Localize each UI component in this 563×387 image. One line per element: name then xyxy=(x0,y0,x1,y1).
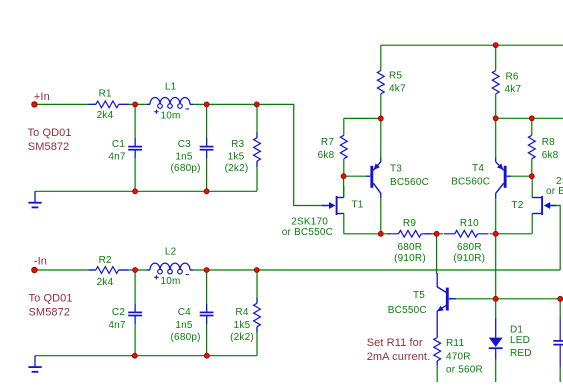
svg-text:2mA current.: 2mA current. xyxy=(367,351,431,363)
svg-text:L1: L1 xyxy=(165,82,177,93)
svg-text:R3: R3 xyxy=(231,139,244,150)
svg-text:4k7: 4k7 xyxy=(389,84,406,95)
svg-text:SM5872: SM5872 xyxy=(28,141,70,153)
svg-text:6k8: 6k8 xyxy=(542,150,559,161)
svg-text:To QD01: To QD01 xyxy=(29,293,73,305)
svg-text:BC550C: BC550C xyxy=(388,305,427,316)
svg-text:2k4: 2k4 xyxy=(97,277,114,288)
svg-text:R6: R6 xyxy=(506,71,519,82)
svg-text:RED: RED xyxy=(510,348,532,359)
svg-text:10m: 10m xyxy=(160,110,180,121)
svg-text:T3: T3 xyxy=(390,163,402,174)
svg-text:(2k2): (2k2) xyxy=(230,332,254,343)
svg-text:BC560C: BC560C xyxy=(390,177,429,188)
svg-text:or BC550C: or BC550C xyxy=(282,227,333,238)
svg-text:4k7: 4k7 xyxy=(505,84,522,95)
svg-text:or BC550C: or BC550C xyxy=(546,186,563,197)
svg-text:4n7: 4n7 xyxy=(108,152,126,163)
svg-text:SM5872: SM5872 xyxy=(29,307,71,319)
svg-text:R7: R7 xyxy=(321,137,334,148)
svg-text:1n5: 1n5 xyxy=(175,320,193,331)
svg-text:C3: C3 xyxy=(178,139,191,150)
svg-text:(680p): (680p) xyxy=(171,163,201,174)
svg-text:Set R11 for: Set R11 for xyxy=(367,337,423,349)
svg-text:R5: R5 xyxy=(389,71,402,82)
svg-text:T5: T5 xyxy=(413,290,425,301)
svg-text:C2: C2 xyxy=(112,307,125,318)
svg-text:R1: R1 xyxy=(99,88,112,99)
svg-text:C1: C1 xyxy=(112,139,125,150)
svg-text:2k4: 2k4 xyxy=(97,110,114,121)
svg-text:R2: R2 xyxy=(99,255,112,266)
svg-text:(910R): (910R) xyxy=(453,253,485,264)
svg-text:1k5: 1k5 xyxy=(228,152,245,163)
svg-text:4n7: 4n7 xyxy=(108,320,126,331)
svg-text:680R: 680R xyxy=(397,242,422,253)
svg-text:R10: R10 xyxy=(460,218,479,229)
svg-text:6k8: 6k8 xyxy=(318,150,335,161)
svg-text:LED: LED xyxy=(510,335,530,346)
svg-text:R4: R4 xyxy=(235,307,248,318)
svg-text:T4: T4 xyxy=(472,163,484,174)
svg-text:D1: D1 xyxy=(510,324,523,335)
svg-text:R9: R9 xyxy=(403,218,416,229)
svg-text:+In: +In xyxy=(34,91,50,103)
svg-text:1k5: 1k5 xyxy=(234,320,251,331)
svg-text:To QD01: To QD01 xyxy=(28,127,72,139)
svg-text:(910R): (910R) xyxy=(394,253,426,264)
svg-text:R11: R11 xyxy=(446,338,464,349)
svg-text:(680p): (680p) xyxy=(171,332,201,343)
svg-text:T1: T1 xyxy=(352,200,364,211)
svg-text:L2: L2 xyxy=(165,247,177,258)
svg-text:or 560R: or 560R xyxy=(446,364,483,375)
svg-text:-In: -In xyxy=(34,256,47,268)
svg-text:2SK170: 2SK170 xyxy=(291,216,328,227)
svg-text:1n5: 1n5 xyxy=(175,152,193,163)
svg-text:680R: 680R xyxy=(457,242,482,253)
svg-text:C4: C4 xyxy=(178,307,191,318)
svg-text:R8: R8 xyxy=(542,137,555,148)
svg-text:10m: 10m xyxy=(160,276,180,287)
svg-text:T2: T2 xyxy=(511,200,523,211)
svg-text:BC560C: BC560C xyxy=(451,177,490,188)
svg-text:(2k2): (2k2) xyxy=(225,163,249,174)
svg-text:470R: 470R xyxy=(446,351,471,362)
